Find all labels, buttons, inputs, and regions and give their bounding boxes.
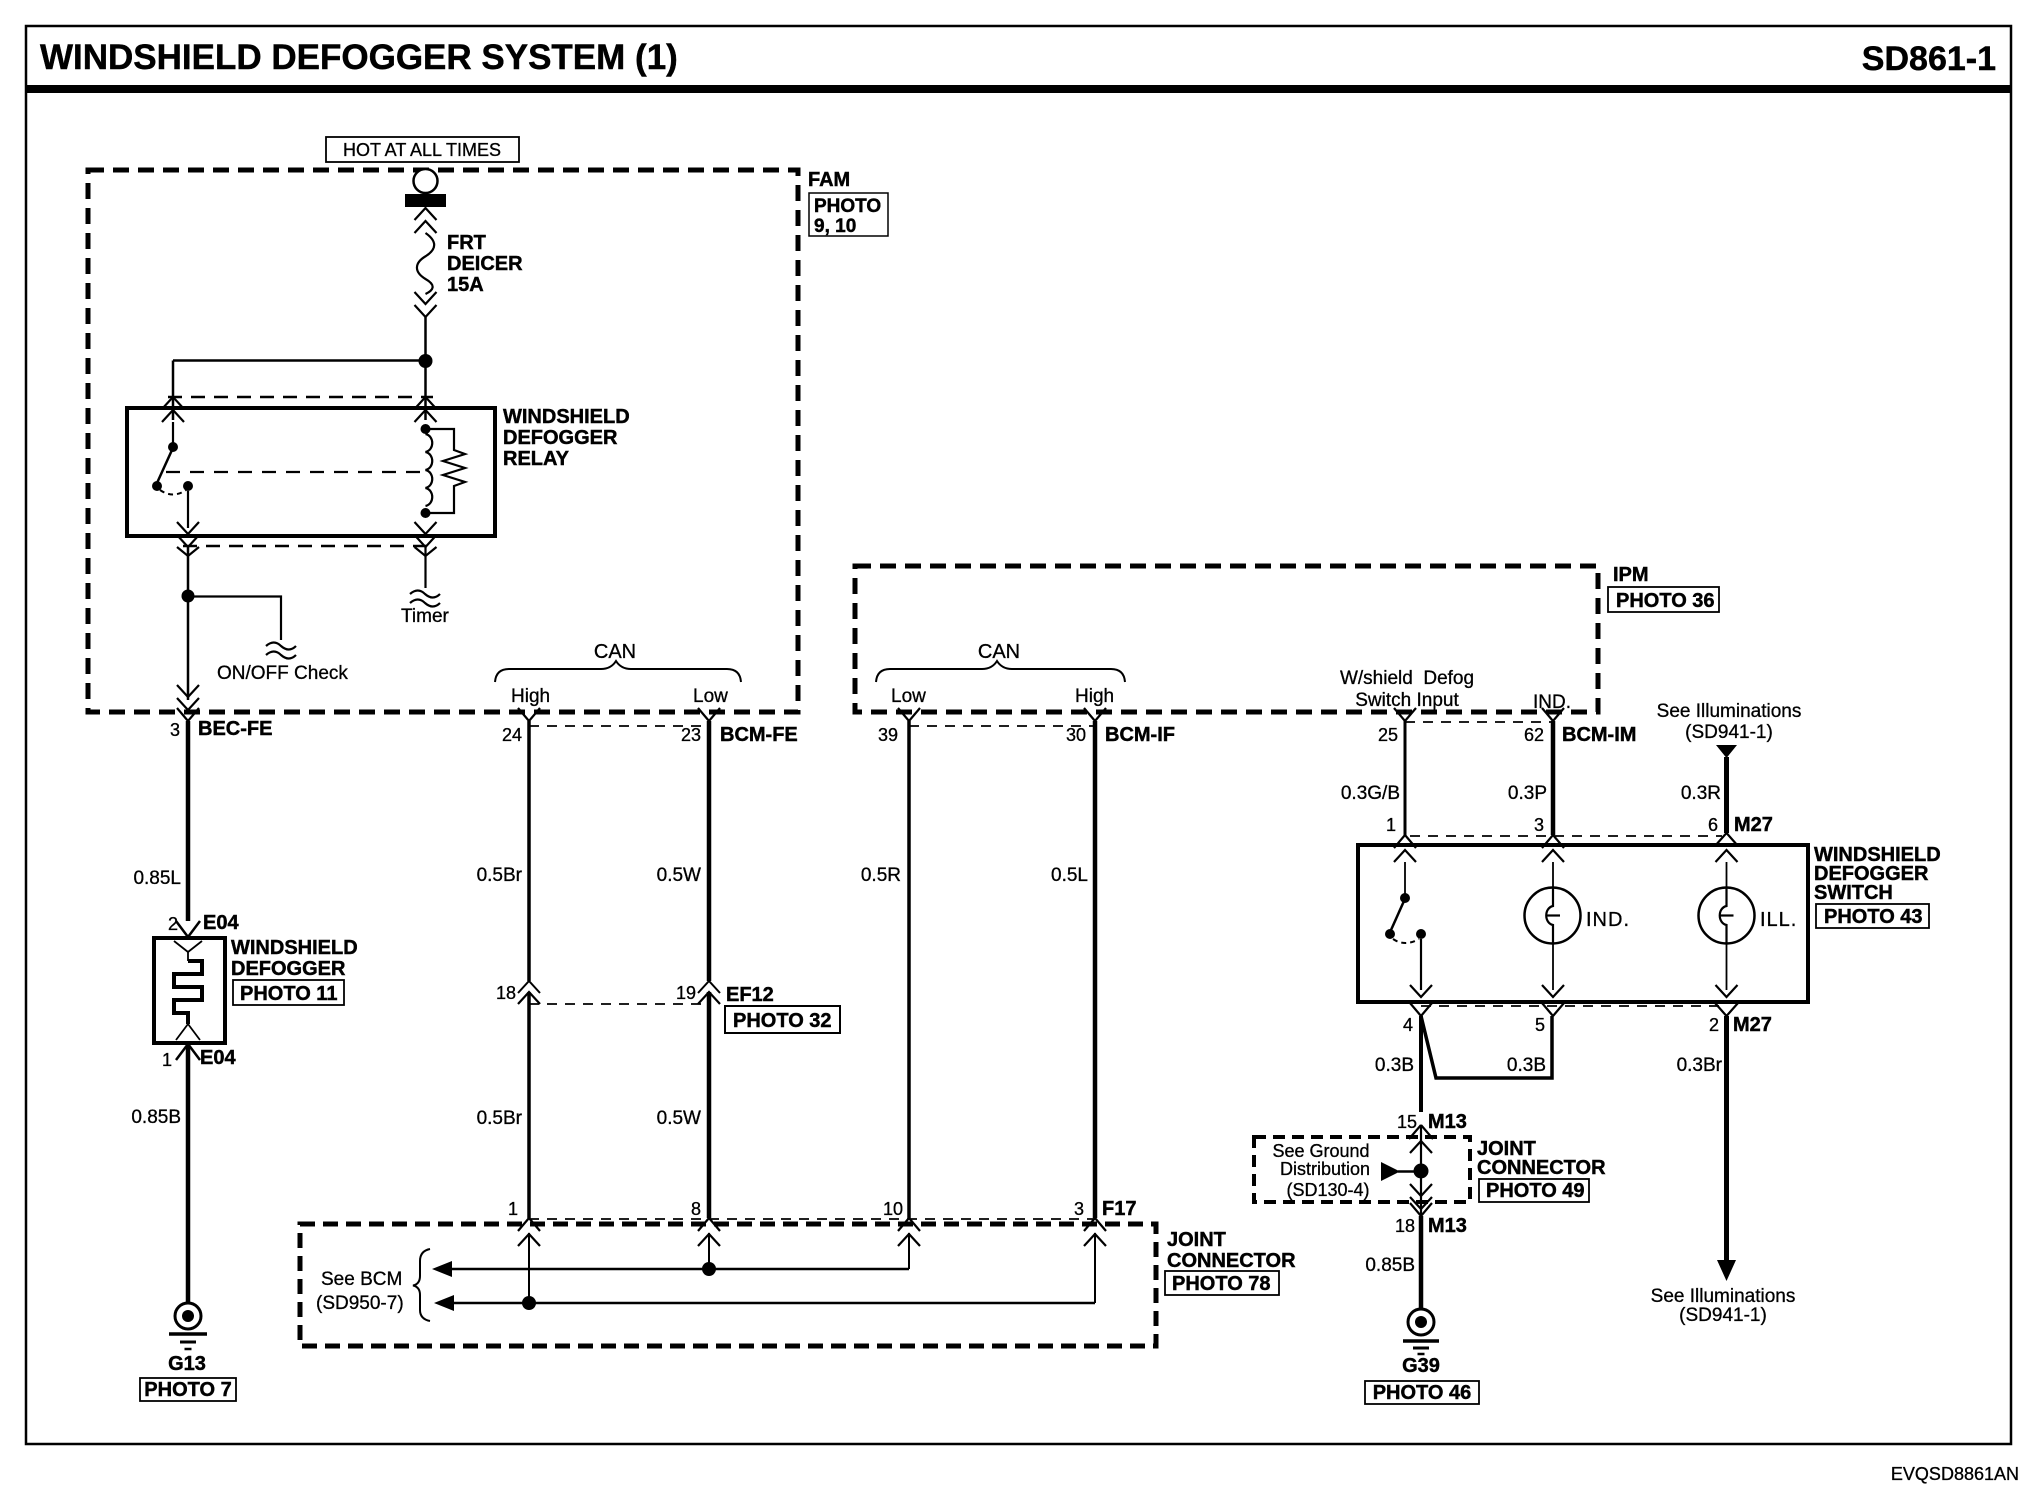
svg-text:Low: Low: [693, 686, 728, 707]
svg-text:PHOTO 43: PHOTO 43: [1824, 906, 1923, 928]
svg-text:BEC-FE: BEC-FE: [198, 718, 272, 740]
svg-text:DEFOGGER: DEFOGGER: [231, 958, 346, 980]
joint bus upper: [436, 1268, 909, 1271]
svg-text:1: 1: [508, 1199, 518, 1219]
svg-text:See Illuminations: See Illuminations: [1657, 701, 1802, 722]
svg-text:9, 10: 9, 10: [814, 216, 856, 237]
svg-text:IND.: IND.: [1586, 909, 1630, 931]
photo ref box PHOTO 43: [1816, 904, 1929, 928]
svg-text:BCM-IF: BCM-IF: [1105, 724, 1175, 746]
switch input pin arrows: [1394, 850, 1416, 862]
node joint connector dot: [1414, 1164, 1429, 1179]
svg-text:Distribution: Distribution: [1280, 1159, 1370, 1179]
svg-text:Timer: Timer: [401, 606, 450, 627]
svg-text:G39: G39: [1402, 1355, 1440, 1377]
wire junction to relay switch (horizontal): [173, 359, 426, 362]
connector M13 pin 18: [1410, 1203, 1432, 1216]
svg-text:0.5L: 0.5L: [1051, 865, 1088, 886]
reference See BCM brace: [413, 1249, 430, 1321]
wire 0.5L: [1093, 721, 1098, 1218]
node junction dot: [419, 354, 433, 368]
svg-text:18: 18: [496, 983, 516, 1003]
svg-text:19: 19: [676, 983, 696, 1003]
svg-text:CAN: CAN: [594, 641, 636, 663]
svg-text:(SD130-4): (SD130-4): [1286, 1180, 1369, 1200]
svg-text:0.5W: 0.5W: [657, 1108, 701, 1129]
svg-text:0.3R: 0.3R: [1681, 783, 1721, 804]
bus bar: [405, 194, 446, 207]
arrow to ground distribution: [1381, 1162, 1400, 1181]
connector E04 pin 1: [176, 1044, 200, 1060]
wire 0.5R: [907, 721, 911, 1218]
wire 0.5W lower: [707, 992, 712, 1218]
svg-text:M27: M27: [1733, 1014, 1772, 1036]
svg-text:WINDSHIELD DEFOGGER SYSTEM (1): WINDSHIELD DEFOGGER SYSTEM (1): [40, 38, 678, 77]
svg-text:0.3Br: 0.3Br: [1677, 1055, 1723, 1076]
wire 0.3B pin5 loop to pin4: [1421, 1016, 1552, 1078]
svg-text:F17: F17: [1102, 1198, 1136, 1220]
connector F17 pins 1/8/10/3: [529, 1218, 1095, 1220]
svg-text:0.3P: 0.3P: [1508, 783, 1547, 804]
svg-text:2: 2: [168, 914, 178, 934]
svg-text:ON/OFF Check: ON/OFF Check: [217, 663, 348, 684]
svg-text:10: 10: [883, 1199, 903, 1219]
connector EF12 pins 18/19: [529, 1003, 709, 1005]
svg-text:(SD950-7): (SD950-7): [316, 1293, 404, 1314]
svg-text:0.85L: 0.85L: [133, 868, 181, 889]
svg-text:Switch Input: Switch Input: [1355, 690, 1459, 711]
ground G13: [175, 1303, 201, 1329]
wire down to relay contact: [172, 361, 175, 421]
svg-text:High: High: [1075, 686, 1114, 707]
svg-text:3: 3: [170, 720, 180, 740]
svg-text:0.85B: 0.85B: [1365, 1255, 1415, 1276]
joint bus lower: [438, 1302, 1095, 1305]
svg-text:0.5W: 0.5W: [657, 865, 701, 886]
FAM fuse/relay module dashed box: [88, 170, 798, 712]
svg-text:15A: 15A: [447, 274, 484, 296]
svg-text:15: 15: [1397, 1112, 1417, 1132]
wire 0.3B pin4 down: [1419, 1016, 1423, 1112]
svg-text:High: High: [511, 686, 550, 707]
defogger input funnel: [174, 941, 202, 961]
svg-text:3: 3: [1534, 815, 1544, 835]
wire fuse to junction: [424, 317, 427, 360]
connector M27 pins 4/5/2: [1421, 1005, 1727, 1007]
windshield defogger switch box: [1358, 845, 1808, 1002]
ON/OFF check continuation squiggle: [266, 643, 296, 659]
svg-text:EVQSD8861AN: EVQSD8861AN: [1891, 1464, 2019, 1484]
svg-text:30: 30: [1066, 725, 1086, 745]
relay contact motion dashed arc: [160, 490, 186, 495]
photo ref box PHOTO 7: [140, 1378, 236, 1401]
connector BCM-FE pins 24/23: [529, 725, 709, 727]
svg-text:HOT AT ALL TIMES: HOT AT ALL TIMES: [343, 140, 501, 160]
connector BCM-IF pins 39/30: [909, 725, 1095, 727]
svg-text:ILL.: ILL.: [1760, 909, 1797, 931]
svg-text:PHOTO: PHOTO: [814, 196, 881, 217]
HOT AT ALL TIMES label box: [326, 137, 519, 162]
relay upper connector dashed line: [168, 396, 433, 399]
arrow to illuminations (bottom): [1717, 1260, 1736, 1281]
connector M27 pins 1/3/6: [1410, 835, 1722, 837]
windshield defogger element box: [154, 938, 225, 1043]
fuse FRT DEICER 15A: [415, 208, 437, 220]
wire 0.85B right: [1419, 1216, 1424, 1309]
node ON/OFF junction dot: [182, 590, 195, 603]
svg-text:E04: E04: [200, 1047, 236, 1069]
svg-text:BCM-FE: BCM-FE: [720, 724, 798, 746]
lamp ILL illumination: [1726, 862, 1728, 888]
pin arrows leaving FAM: [177, 685, 199, 697]
svg-text:0.3B: 0.3B: [1375, 1055, 1414, 1076]
photo ref box PHOTO 46: [1365, 1381, 1479, 1404]
svg-text:1: 1: [1386, 815, 1396, 835]
svg-text:PHOTO 11: PHOTO 11: [240, 983, 337, 1005]
wire 0.3G/B: [1404, 721, 1407, 835]
svg-text:3: 3: [1074, 1199, 1084, 1219]
title underline bar: [26, 85, 2011, 93]
svg-text:JOINT: JOINT: [1167, 1229, 1226, 1251]
svg-text:PHOTO 7: PHOTO 7: [144, 1379, 231, 1401]
joint connector output arrows: [1410, 1184, 1432, 1196]
svg-text:0.3B: 0.3B: [1507, 1055, 1546, 1076]
wire relay to timer: [424, 547, 426, 588]
IPM module dashed box: [855, 566, 1598, 712]
svg-text:4: 4: [1403, 1015, 1413, 1035]
switch output pin arrows: [1410, 985, 1432, 997]
svg-text:E04: E04: [203, 912, 239, 934]
relay movable contact arm: [157, 450, 172, 483]
connector BCM-IM pins 25/62: [1405, 721, 1553, 723]
wire switch to pin 4: [1420, 939, 1422, 990]
ground distribution dashed box: [1254, 1137, 1470, 1202]
svg-text:See BCM: See BCM: [321, 1269, 402, 1290]
svg-text:CAN: CAN: [978, 641, 1020, 663]
svg-text:0.5Br: 0.5Br: [477, 1108, 523, 1129]
svg-text:PHOTO 32: PHOTO 32: [733, 1010, 832, 1032]
svg-text:M13: M13: [1428, 1111, 1467, 1133]
wire to ON/OFF check: [188, 597, 281, 641]
svg-text:SD861-1: SD861-1: [1862, 40, 1996, 78]
relay WINDSHIELD DEFOGGER RELAY box: [127, 408, 495, 536]
svg-text:WINDSHIELD: WINDSHIELD: [231, 937, 358, 959]
svg-text:(SD941-1): (SD941-1): [1685, 722, 1773, 743]
relay coil suppression resistor: [426, 429, 466, 513]
svg-text:G13: G13: [168, 1353, 206, 1375]
wire through joint connector: [1420, 1125, 1422, 1216]
photo ref box PHOTO 36: [1608, 587, 1719, 612]
joint connector dashed box (PHOTO 78): [300, 1224, 1156, 1346]
svg-text:IND.: IND.: [1533, 692, 1571, 713]
wire 0.85L: [186, 721, 191, 921]
svg-text:CONNECTOR: CONNECTOR: [1477, 1157, 1606, 1179]
svg-text:1: 1: [162, 1050, 172, 1070]
svg-text:CONNECTOR: CONNECTOR: [1167, 1250, 1296, 1272]
wire contact to relay output: [187, 491, 189, 528]
svg-text:(SD941-1): (SD941-1): [1679, 1305, 1767, 1326]
relay lower connector dashed line: [183, 545, 433, 548]
svg-text:24: 24: [502, 725, 522, 745]
FAM photo ref box PHOTO 9, 10: [809, 193, 888, 236]
CAN brace 2: [876, 661, 1125, 682]
wire 0.5Br lower: [527, 992, 531, 1218]
wire 0.3Br pin2 down: [1724, 1016, 1729, 1261]
svg-text:W/shield Defog: W/shield Defog: [1340, 668, 1474, 689]
svg-text:See Illuminations: See Illuminations: [1651, 1286, 1796, 1307]
svg-text:5: 5: [1535, 1015, 1545, 1035]
wire 0.85B: [186, 1044, 191, 1303]
svg-text:EF12: EF12: [726, 984, 774, 1006]
svg-text:FAM: FAM: [808, 169, 850, 191]
timer continuation squiggle: [410, 591, 440, 607]
svg-text:Low: Low: [891, 686, 926, 707]
svg-text:M27: M27: [1734, 814, 1773, 836]
wire 0.3P: [1551, 721, 1556, 835]
switch motion dashed arc: [1393, 939, 1419, 943]
photo ref box PHOTO 32: [725, 1006, 840, 1033]
defogger heating element: [174, 961, 202, 1024]
svg-text:BCM-IM: BCM-IM: [1562, 724, 1636, 746]
svg-text:IPM: IPM: [1613, 564, 1649, 586]
wire relay output down: [187, 547, 190, 700]
relay mechanical link dashed line: [166, 471, 421, 473]
svg-text:FRT: FRT: [447, 232, 486, 254]
svg-text:6: 6: [1708, 815, 1718, 835]
node battery feed circle: [414, 169, 438, 193]
wire junction to relay coil: [424, 361, 427, 420]
svg-text:RELAY: RELAY: [503, 448, 570, 470]
svg-text:WINDSHIELD: WINDSHIELD: [503, 406, 630, 428]
svg-text:PHOTO 78: PHOTO 78: [1172, 1273, 1271, 1295]
svg-text:SWITCH: SWITCH: [1814, 882, 1893, 904]
pin arrows into relay: [162, 397, 184, 409]
svg-text:25: 25: [1378, 725, 1398, 745]
relay contact common: [172, 422, 174, 443]
lamp IND indicator: [1552, 862, 1554, 888]
svg-text:0.3G/B: 0.3G/B: [1341, 783, 1400, 804]
svg-text:23: 23: [681, 725, 701, 745]
svg-text:0.5R: 0.5R: [861, 865, 901, 886]
svg-text:PHOTO 36: PHOTO 36: [1616, 590, 1715, 612]
svg-text:39: 39: [878, 725, 898, 745]
ground G39: [1408, 1309, 1434, 1335]
svg-text:PHOTO 49: PHOTO 49: [1486, 1180, 1585, 1202]
arrow from illuminations: [1716, 745, 1737, 758]
wire 0.5Br upper: [527, 721, 531, 981]
wire stubs inside joint connector: [528, 1233, 530, 1303]
svg-text:See Ground: See Ground: [1272, 1141, 1369, 1161]
svg-text:62: 62: [1524, 725, 1544, 745]
joint connector pin arrows: [518, 1234, 540, 1246]
svg-text:DEICER: DEICER: [447, 253, 523, 275]
relay output pin arrows: [177, 522, 199, 534]
switch contact: [1404, 862, 1406, 894]
svg-text:M13: M13: [1428, 1215, 1467, 1237]
relay coil: [421, 424, 431, 434]
svg-text:PHOTO 46: PHOTO 46: [1373, 1382, 1472, 1404]
svg-text:DEFOGGER: DEFOGGER: [503, 427, 618, 449]
defogger output funnel: [176, 1024, 200, 1040]
wire 0.3R: [1724, 757, 1729, 833]
svg-text:0.5Br: 0.5Br: [477, 865, 523, 886]
svg-text:0.85B: 0.85B: [131, 1107, 181, 1128]
CAN brace 1: [495, 661, 741, 682]
connector BEC-FE pin 3 fork: [177, 708, 199, 721]
relay contact throw dot: [183, 481, 193, 491]
svg-text:2: 2: [1709, 1015, 1719, 1035]
wire 0.5W upper: [707, 721, 712, 981]
svg-text:18: 18: [1395, 1216, 1415, 1236]
svg-text:8: 8: [691, 1199, 701, 1219]
photo ref box PHOTO 11: [233, 980, 344, 1005]
